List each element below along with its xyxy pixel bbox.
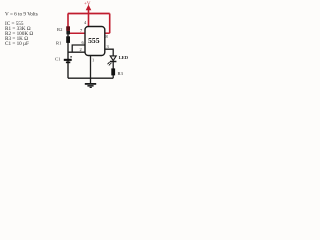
resistor R3 (111, 68, 115, 75)
wire right drop to pin 8 (red) (109, 14, 111, 34)
svg-text:V = 6 to 9 Volts: V = 6 to 9 Volts (5, 12, 38, 18)
wire pin 3 to LED (105, 49, 113, 56)
svg-text:2: 2 (80, 47, 82, 52)
svg-text:LED: LED (119, 55, 129, 60)
capacitor C1 (64, 56, 72, 63)
ground (85, 78, 96, 88)
wire LED to R3 (112, 62, 114, 79)
wire +V top rail (red) (68, 13, 110, 15)
wire pin 7 (red) (68, 32, 85, 34)
wire left drop to R2 (red) (67, 14, 69, 34)
LED D1 (107, 56, 116, 66)
wire bottom rail (68, 77, 113, 79)
resistor R2 (66, 26, 70, 31)
wire pin 4 drop from rail to IC top (red) (88, 14, 90, 28)
svg-text:+V: +V (84, 2, 91, 7)
svg-text:555: 555 (88, 36, 100, 45)
svg-text:C1 = 10 µF: C1 = 10 µF (5, 41, 29, 47)
svg-text:R2: R2 (57, 27, 63, 32)
parts list text block (5, 12, 38, 48)
svg-text:R3: R3 (118, 71, 124, 76)
svg-text:C1: C1 (55, 57, 61, 62)
wire pin 2 (68, 51, 85, 53)
node junction R2/R1/pin7 (66, 31, 70, 34)
wire pin 1 to ground rail (90, 56, 92, 79)
wire main left vertical (R1 to C1 to bottom) (67, 33, 69, 78)
wire pin 8 stub (red) (105, 32, 110, 34)
background (0, 0, 170, 95)
wire pin 6 (72, 45, 85, 52)
svg-text:R1: R1 (56, 41, 62, 46)
+V supply arrow (86, 5, 92, 14)
LED emission arrows (109, 63, 111, 65)
svg-text:1: 1 (92, 58, 94, 63)
op-amp U1 555 timer body (85, 27, 105, 56)
resistor R1 (66, 36, 70, 43)
